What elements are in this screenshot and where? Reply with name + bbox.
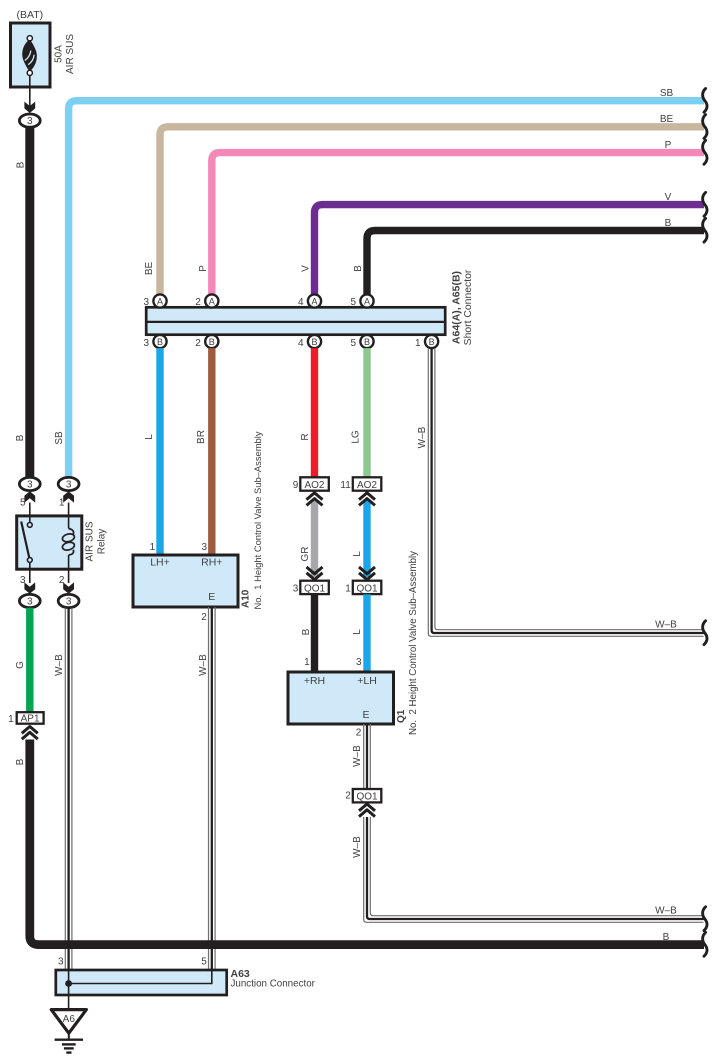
valve Q1 body: [288, 672, 394, 724]
svg-text:5: 5: [350, 338, 356, 349]
A63 internal bus: [69, 971, 212, 984]
off-page squiggle V: [703, 192, 707, 216]
svg-text:1: 1: [59, 498, 65, 509]
svg-text:AIR SUS: AIR SUS: [84, 521, 95, 561]
svg-text:3: 3: [201, 542, 207, 553]
svg-text:3: 3: [293, 584, 299, 595]
svg-text:B: B: [301, 628, 312, 635]
wire SB (to air suspension ECU): [69, 101, 704, 478]
connector 3 oval (relay to G wire): [19, 594, 40, 607]
svg-text:W–B: W–B: [54, 654, 65, 676]
svg-text:W–B: W–B: [417, 426, 428, 448]
wire W-B (col5, to off page): [435, 348, 704, 630]
svg-text:A10: A10: [241, 589, 252, 608]
pin circle B (col1): [153, 335, 166, 348]
wire G (relay to AP1): [26, 608, 33, 713]
svg-text:4: 4: [298, 297, 304, 308]
svg-text:QO1: QO1: [356, 792, 378, 803]
chevrons into QO1 (left): [307, 567, 323, 574]
svg-text:SB: SB: [660, 88, 674, 99]
connector QO1 (left): [300, 581, 329, 594]
svg-text:B: B: [665, 218, 672, 229]
svg-text:W–B: W–B: [198, 654, 209, 676]
svg-text:Short Connector: Short Connector: [463, 269, 474, 345]
svg-text:50A: 50A: [53, 45, 64, 63]
svg-text:3: 3: [356, 657, 362, 668]
wire L (col1): [156, 348, 163, 555]
svg-text:Q1: Q1: [396, 709, 407, 723]
svg-text:2: 2: [195, 297, 201, 308]
wire B (to short connector pin 5): [367, 231, 704, 295]
svg-text:QO1: QO1: [304, 583, 326, 594]
connector 3 oval (fuse to harness): [19, 114, 40, 127]
wire B (QO1 to Q1 pin 1): [311, 594, 318, 672]
svg-text:3: 3: [27, 480, 33, 491]
svg-text:A: A: [209, 296, 215, 306]
svg-text:+LH: +LH: [357, 675, 377, 687]
svg-text:E: E: [362, 709, 369, 721]
short connector A64(A),A65(B) body: [146, 307, 445, 334]
svg-text:AO2: AO2: [304, 480, 324, 491]
wire LG (col4): [363, 348, 370, 477]
arrow into oval (pin 2 side): [63, 582, 74, 593]
svg-text:BE: BE: [144, 262, 155, 276]
off-page squiggle W-B: [703, 907, 707, 931]
svg-text:3: 3: [66, 597, 72, 608]
svg-text:B: B: [311, 337, 317, 347]
svg-text:GR: GR: [300, 547, 311, 562]
svg-text:B: B: [157, 337, 163, 347]
off-page squiggle P: [703, 140, 707, 164]
ground symbol: [68, 1033, 70, 1040]
svg-text:2: 2: [195, 338, 201, 349]
svg-text:RH+: RH+: [201, 557, 222, 569]
svg-text:R: R: [300, 433, 311, 440]
arrow into connector 3: [24, 102, 35, 113]
chevrons into QO1 (right): [359, 567, 375, 574]
svg-text:B: B: [15, 758, 26, 765]
svg-text:3: 3: [58, 957, 64, 968]
svg-text:V: V: [665, 192, 672, 203]
relay pin 3 lead: [29, 569, 31, 584]
pin circle A (col2): [205, 294, 218, 307]
svg-text:A64(A), A65(B): A64(A), A65(B): [451, 271, 463, 344]
relay AIR SUS body: [17, 516, 82, 569]
svg-text:W–B: W–B: [352, 836, 363, 858]
wire GR: [311, 500, 318, 578]
pin circle B (col4): [360, 335, 373, 348]
svg-text:W–B: W–B: [655, 619, 677, 630]
svg-text:5: 5: [350, 297, 356, 308]
svg-text:L: L: [352, 551, 363, 557]
wire B battery feed (vertical): [25, 127, 34, 477]
pin circle A (col4): [360, 294, 373, 307]
connector 3 oval (B into relay): [19, 477, 40, 490]
svg-text:L: L: [352, 629, 363, 635]
chevrons into QO1 (bottom): [359, 804, 375, 811]
svg-text:2: 2: [201, 612, 207, 623]
valve A10 body: [133, 555, 238, 607]
wire B (AP1 to off page): [30, 740, 704, 945]
connector AO2 (left): [300, 477, 329, 490]
wire W-B (QO1 to off page): [370, 817, 703, 916]
wire BE: [160, 127, 704, 295]
relay coil: [68, 517, 70, 529]
svg-text:1: 1: [345, 584, 351, 595]
svg-text:LH+: LH+: [150, 557, 170, 569]
svg-text:B: B: [16, 161, 27, 168]
svg-text:2: 2: [356, 728, 362, 739]
svg-text:1: 1: [8, 714, 14, 725]
wire V: [315, 205, 705, 295]
svg-text:V: V: [301, 265, 312, 272]
wire W-B (relay to A63 pin 3): [64, 608, 66, 970]
wire L (between AO2 and QO1): [363, 500, 370, 578]
svg-text:1: 1: [150, 542, 156, 553]
svg-text:B: B: [209, 337, 215, 347]
svg-text:1: 1: [415, 338, 421, 349]
arrow into oval (pin 3 side): [24, 582, 35, 593]
svg-text:E: E: [208, 591, 215, 603]
relay pin 2 lead: [68, 569, 70, 584]
wire P: [212, 153, 704, 295]
wire L (QO1 to Q1 pin 3): [363, 594, 370, 672]
svg-text:11: 11: [340, 480, 351, 491]
svg-text:B: B: [429, 337, 435, 347]
junction dot: [65, 980, 72, 987]
relay pin 1 lead: [68, 503, 70, 517]
svg-text:P: P: [665, 140, 672, 151]
chevrons into AO2 (left): [307, 493, 323, 500]
svg-text:B: B: [364, 337, 370, 347]
wire BR (col2): [208, 348, 215, 555]
svg-text:B: B: [663, 932, 670, 943]
off-page squiggle SB: [703, 89, 707, 113]
wire W-B (Q1 E to QO1): [363, 724, 365, 789]
svg-text:L: L: [144, 434, 155, 440]
relay switch contact: [29, 517, 31, 523]
off-page squiggle B: [703, 932, 707, 956]
svg-text:Relay: Relay: [96, 529, 107, 555]
svg-text:2: 2: [345, 791, 351, 802]
pin circle B (col2): [205, 335, 218, 348]
svg-text:BE: BE: [660, 114, 674, 125]
pin circle B (col5): [425, 335, 438, 348]
pin circle A (col1): [153, 294, 166, 307]
svg-text:3: 3: [66, 480, 72, 491]
svg-text:3: 3: [27, 116, 33, 127]
pin circle A (col3): [308, 294, 321, 307]
connector 3 oval (relay to W-B wire): [58, 594, 79, 607]
pin circle B (col3): [308, 335, 321, 348]
svg-text:No. 1 Height Control Valve Su: No. 1 Height Control Valve Sub–Assembly: [252, 431, 263, 609]
off-page squiggle W-B: [703, 621, 707, 645]
chevrons into AO2 (right): [359, 493, 375, 500]
connector QO1 (bottom): [353, 789, 382, 802]
svg-text:A: A: [311, 296, 317, 306]
junction connector A63 body: [56, 970, 227, 995]
svg-text:3: 3: [143, 338, 149, 349]
ground point A6: [51, 1010, 86, 1034]
off-page squiggle BE: [703, 115, 707, 139]
svg-text:9: 9: [293, 480, 299, 491]
svg-text:5: 5: [20, 498, 26, 509]
arrow into oval (pin 1 side): [63, 491, 74, 502]
svg-text:A6: A6: [63, 1014, 76, 1025]
svg-text:AP1: AP1: [21, 713, 40, 724]
relay pin 5 lead: [29, 503, 31, 517]
svg-text:AO2: AO2: [357, 480, 377, 491]
svg-text:4: 4: [298, 338, 304, 349]
connector QO1 (right): [353, 581, 382, 594]
svg-text:AIR SUS: AIR SUS: [65, 34, 76, 74]
fuse 50A AIR SUS (fusible link): [11, 23, 51, 87]
svg-text:(BAT): (BAT): [16, 9, 43, 21]
svg-text:+RH: +RH: [304, 675, 325, 687]
svg-text:Junction Connector: Junction Connector: [231, 979, 316, 990]
chevrons into AP1: [22, 727, 38, 734]
arrow into oval (pin 5 side): [24, 491, 35, 502]
svg-text:B: B: [15, 434, 26, 441]
svg-text:G: G: [15, 661, 26, 669]
svg-text:P: P: [198, 265, 209, 272]
connector AO2 (right): [353, 477, 382, 490]
svg-text:A: A: [364, 296, 370, 306]
svg-text:A: A: [157, 296, 163, 306]
svg-text:B: B: [353, 265, 364, 272]
wire fuse output: [29, 76, 31, 107]
wire W-B (A10 E to A63 pin 5): [208, 607, 210, 970]
svg-text:SB: SB: [54, 431, 65, 445]
svg-text:W–B: W–B: [655, 905, 677, 916]
svg-text:LG: LG: [351, 430, 362, 444]
svg-text:3: 3: [143, 297, 149, 308]
svg-text:BR: BR: [196, 430, 207, 444]
svg-text:1: 1: [304, 657, 310, 668]
off-page squiggle B: [703, 218, 707, 242]
svg-text:3: 3: [27, 597, 33, 608]
svg-text:5: 5: [201, 957, 207, 968]
wire R (col3): [311, 348, 318, 477]
wire to ground: [68, 984, 70, 1010]
connector AP1: [17, 712, 44, 724]
connector 3 oval (SB into relay): [58, 477, 79, 490]
svg-text:W–B: W–B: [352, 745, 363, 767]
svg-text:No. 2 Height Control Valve Su: No. 2 Height Control Valve Sub–Assembly: [408, 551, 419, 735]
svg-text:QO1: QO1: [356, 583, 378, 594]
